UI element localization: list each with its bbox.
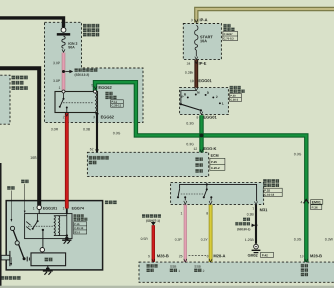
- label armature with leader: [21, 180, 24, 183]
- wire 0.3G green branch: EGG01 pin9 to ECM pin12 EGG-K: [199, 115, 203, 152]
- wire olive: START fuse IP-A to top right: [196, 9, 334, 23]
- label 1.25B: [245, 239, 246, 241]
- label IGN 2 50A: [68, 42, 71, 44]
- transmission range switch box EGG01: [180, 88, 229, 115]
- wire label 16B: [30, 156, 32, 158]
- relay pin labels: [59, 87, 60, 89]
- wire 0.3G green main: relay pin5 - ECM - EM01 - M28-B: [95, 82, 306, 262]
- relay pin 5: [94, 90, 97, 93]
- fuse IGN 2 50A: [61, 28, 66, 33]
- pinion / one-way clutch: [1, 255, 10, 260]
- label one-way clutch: [1, 276, 5, 280]
- band pin labels: [148, 255, 150, 257]
- wire 0.3B: relay pin3 to ECM pin52: [96, 113, 98, 153]
- wire 3.0P pink: fuse to relay pin1: [62, 53, 66, 92]
- scan strip bottom: [0, 286, 334, 288]
- node: junction to power distribution SD113-2: [62, 70, 65, 73]
- ground GM02: [254, 244, 259, 249]
- label start relay + P.11 C.20-11: [105, 92, 108, 95]
- bottom signal band box: [139, 262, 334, 282]
- motor ground: [47, 266, 49, 268]
- connector EGG62 (bottom): [101, 116, 103, 119]
- starter magnetic switch box: [25, 214, 72, 239]
- green junction node: [200, 133, 204, 137]
- connector IP-E pin 34: [187, 62, 189, 64]
- connector EGG01 pin 10: [190, 80, 191, 82]
- label starter magnetic switch + P.16 C.20-10 /21-1: [74, 214, 77, 217]
- relay switch contact: [63, 93, 65, 99]
- ECM box: [87, 152, 208, 176]
- label 3.0P: [53, 62, 55, 64]
- relay coil: [95, 93, 96, 111]
- relay pin 1: [62, 90, 65, 93]
- connector joint EM01 pin 4: [304, 200, 309, 204]
- motor box: [31, 253, 66, 266]
- wire 0.3P pink: SSB pin1 to M28-B 25: [184, 205, 187, 262]
- switch position dots P R N D 2 L: [187, 96, 189, 98]
- label indoor junction box + P.36/37 C.70-1/3: [223, 24, 226, 27]
- fuse START 10A: [195, 26, 198, 45]
- relay mechanical link (dashed): [63, 102, 93, 104]
- label starter (outside box): [105, 201, 109, 205]
- wire 0.3B black: SSB pin7 M31 to ground GM02: [255, 205, 257, 244]
- band signal texts: [147, 264, 150, 267]
- switch position letters: [182, 96, 184, 98]
- starter motor box: [6, 201, 102, 270]
- engine room fuse & relay box (dashed step outline): [45, 22, 144, 122]
- plunger link node: [40, 248, 44, 252]
- motor shaft coupling: [26, 257, 28, 262]
- label 3.0R / 0.3B under relay: [51, 128, 53, 130]
- wire 0.5R red: brake light ref to M28-B 5: [152, 225, 155, 262]
- label starter relay control: [89, 156, 93, 160]
- solenoid coils: [54, 215, 67, 217]
- battery & battery fuse box (dashed, cropped at left): [0, 75, 10, 124]
- ECM pin 12 EGG-K: [194, 148, 195, 150]
- label fork lever with leader: [7, 186, 10, 189]
- label engine room fuse & relay box: [83, 24, 87, 28]
- wire 0.3Br brown: IP-E to EGG01 pin10: [194, 60, 198, 88]
- transmission range switch contacts: [181, 91, 196, 104]
- label start stop button switch + P.32 C.10-18: [263, 179, 267, 183]
- fuse START 10A box (indoor junction box): [183, 24, 221, 60]
- SSB pin numbers: [181, 212, 182, 214]
- wire: battery cable to IGN2 fuse (16B top): [0, 18, 64, 27]
- connector EGG62 (top): [99, 86, 101, 89]
- label start control switch (vertical): [195, 158, 198, 161]
- relay: start relay (box): [55, 92, 98, 113]
- starter connector EGG101 pin 1: [37, 205, 41, 209]
- start stop button switch box: [171, 182, 264, 204]
- band pin chevrons: [152, 259, 155, 262]
- wire: battery cable 16B to starter: [0, 68, 39, 205]
- brake light reference SD927-1: [142, 214, 145, 217]
- wire 3.0R red: relay pin2 to starter EGG74: [65, 113, 69, 209]
- wire 0.3Y yellow: SSB pin8 to M28-A: [209, 205, 213, 262]
- ground distribution ref SD130-1: [255, 224, 258, 227]
- label 0.3W (cropped at right): [325, 238, 327, 240]
- engagement lever: [13, 228, 25, 258]
- scan edge sliver left: [0, 163, 2, 288]
- connector IP-A pin 3: [191, 19, 193, 21]
- label battery & battery fuse box: [12, 76, 16, 80]
- solenoid ground: [66, 236, 68, 240]
- label 0.3Br: [185, 71, 187, 73]
- label ECM + P.25 C.20-2: [211, 154, 213, 156]
- connector EGG01 pin 9: [197, 116, 199, 118]
- solenoid main contacts: [38, 210, 40, 214]
- ECM pin 52: [90, 148, 92, 150]
- starter connector EGG74: [66, 208, 68, 213]
- label 0.3B (M31): [247, 213, 249, 215]
- labels 0.3G: [113, 132, 115, 134]
- label 0.3P / 0.3Y: [175, 238, 177, 240]
- label transmission range switch + P.20 C.20-3: [230, 86, 233, 89]
- SSB internal wiring: [180, 184, 257, 201]
